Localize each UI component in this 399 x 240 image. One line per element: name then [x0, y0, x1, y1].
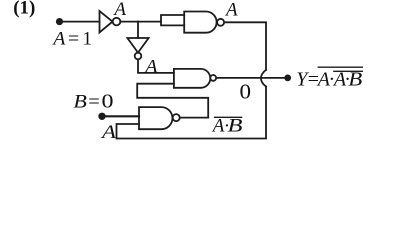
- svg-text:=: =: [68, 29, 79, 50]
- svg-text:0: 0: [240, 79, 252, 103]
- svg-text:A: A: [224, 0, 238, 21]
- svg-text:A: A: [143, 56, 158, 77]
- svg-text:1: 1: [83, 29, 93, 50]
- svg-text:(1): (1): [13, 0, 35, 19]
- svg-text:0: 0: [102, 91, 114, 113]
- svg-text:B: B: [348, 69, 362, 91]
- svg-text:A: A: [112, 0, 126, 20]
- svg-text:B: B: [228, 116, 244, 137]
- svg-text:A: A: [100, 122, 117, 143]
- svg-text:A: A: [211, 116, 225, 137]
- svg-text:B: B: [73, 92, 87, 113]
- svg-text:A: A: [51, 29, 65, 50]
- svg-text:=: =: [88, 92, 100, 113]
